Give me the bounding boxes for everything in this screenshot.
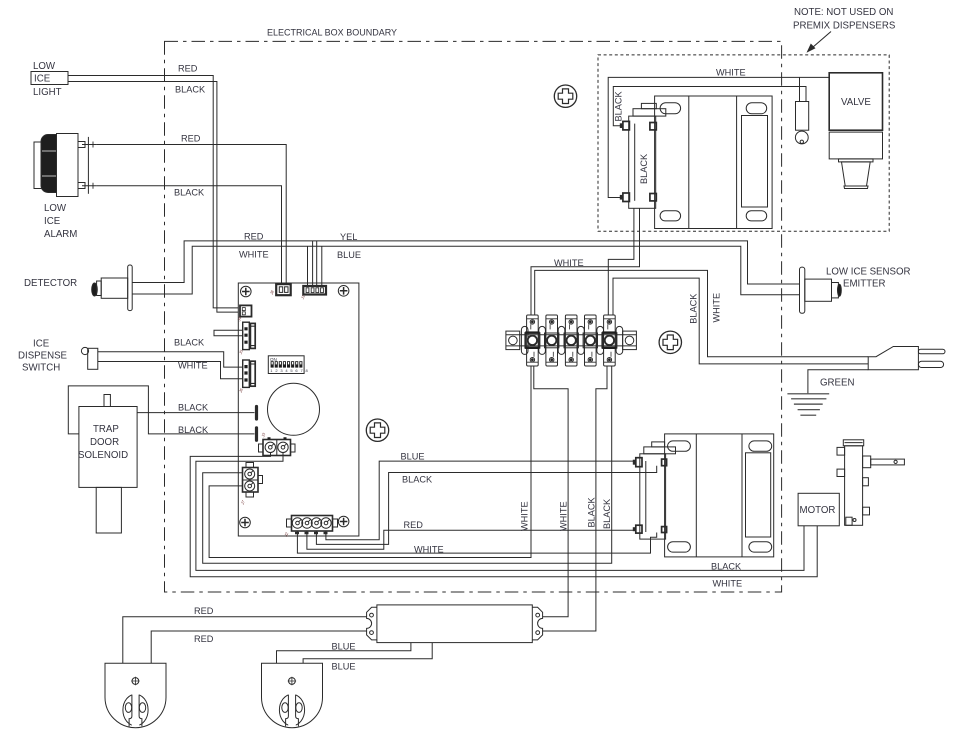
svg-text:BLACK: BLACK — [178, 425, 209, 435]
svg-text:ON: ON — [270, 357, 277, 362]
gearmotor M1 — [837, 440, 904, 526]
transformer XFMR2 coil — [634, 442, 676, 539]
note dashed box — [598, 55, 889, 231]
svg-text:WHITE: WHITE — [178, 361, 208, 371]
board pin 2 — [255, 428, 258, 441]
lamp holder 2 — [262, 663, 323, 727]
wire transformer T1B to terminal T1 — [531, 208, 640, 315]
svg-text:BLACK: BLACK — [174, 338, 205, 348]
svg-text:GREEN: GREEN — [820, 378, 854, 389]
svg-text:WHITE: WHITE — [712, 293, 722, 323]
wire RED lamp1b to ballast — [151, 631, 366, 663]
fluorescent ballast — [367, 605, 543, 643]
svg-text:DETECTOR: DETECTOR — [24, 278, 77, 289]
svg-text:DISPENSE: DISPENSE — [18, 351, 68, 362]
transformer XFMR1 coil — [621, 103, 666, 208]
control board PCB — [238, 283, 359, 536]
wire RED J2 to transformer2 — [307, 530, 636, 549]
svg-text:WHITE: WHITE — [558, 501, 568, 531]
svg-text:RED: RED — [404, 520, 424, 530]
svg-text:J7: J7 — [239, 499, 246, 506]
wire J7-1 to terminal T5 bottom — [203, 366, 612, 563]
electrical box boundary (dash-dot) — [165, 41, 782, 592]
wire BLACK solenoid to board pin — [137, 412, 254, 414]
wire GREEN plug to ground — [808, 370, 868, 394]
PCB screw bottom-right — [338, 516, 349, 527]
svg-text:WHITE: WHITE — [239, 250, 269, 260]
connector J7 — [239, 463, 262, 507]
svg-text:SOLENOID: SOLENOID — [78, 450, 128, 461]
svg-text:SWITCH: SWITCH — [22, 363, 60, 374]
power plug P1 — [868, 347, 945, 370]
ground symbol — [787, 394, 829, 415]
svg-text:BLACK: BLACK — [689, 293, 699, 324]
svg-text:BLUE: BLUE — [401, 452, 425, 462]
connector J5 — [237, 322, 255, 356]
wire BLUE ballast to lamp2 b — [303, 643, 432, 664]
wire BLUE ballast to lamp2 — [277, 643, 411, 664]
wire BLACK solenoid loop to board pin — [68, 386, 254, 434]
wire BLACK from low ice light to J4 — [68, 82, 238, 313]
wire WHITE/BLUE horizontal detector to emitter — [132, 246, 799, 295]
svg-text:WHITE: WHITE — [554, 258, 584, 268]
svg-text:WHITE: WHITE — [414, 545, 444, 555]
lamp holder 1 — [105, 663, 166, 727]
svg-text:BLUE: BLUE — [332, 642, 356, 652]
wire J3-1 to motor white bus — [190, 453, 817, 577]
svg-text:YEL: YEL — [340, 232, 357, 242]
wire BLACK transformer1 to lamp — [613, 87, 806, 126]
board pin 1 — [255, 407, 258, 420]
wire J7-2 to terminal T1 bottom — [209, 366, 531, 558]
svg-text:LIGHT: LIGHT — [33, 87, 62, 98]
terminal T2 — [545, 315, 559, 366]
PCB screw top-left — [241, 286, 252, 297]
DIP switch SW1 — [268, 356, 310, 374]
svg-text:BLACK: BLACK — [174, 188, 205, 198]
relay circle on PCB — [268, 383, 320, 435]
wire taps J1 pins — [308, 241, 322, 286]
wire BLUE J2 to transformer2 — [326, 461, 636, 540]
detector — [24, 265, 132, 311]
wire BLACK from alarm to J8 — [96, 186, 281, 284]
svg-text:TRAP: TRAP — [93, 424, 119, 435]
svg-text:LOW: LOW — [33, 61, 56, 72]
svg-text:ICE: ICE — [33, 339, 50, 350]
svg-text:ALARM: ALARM — [44, 229, 77, 240]
terminal T5 — [602, 315, 616, 366]
svg-text:BLUE: BLUE — [332, 662, 356, 672]
svg-text:VALVE: VALVE — [841, 97, 871, 108]
svg-text:DOOR: DOOR — [90, 437, 119, 448]
wire J3-2 to motor black bus — [196, 453, 804, 571]
wire RED from low ice light to J4 — [68, 76, 238, 308]
PCB screw bottom-left — [240, 517, 251, 528]
terminal block TB1 bracket — [506, 331, 637, 350]
svg-text:BLUE: BLUE — [337, 250, 361, 260]
svg-text:BLACK: BLACK — [711, 562, 742, 572]
wire terminal T5 bottom to ballast — [543, 366, 607, 631]
svg-text:RED: RED — [194, 634, 214, 644]
terminal spacers — [521, 326, 622, 354]
svg-text:MOTOR: MOTOR — [800, 505, 836, 516]
wire BLACK plug to T5 — [613, 278, 868, 364]
connector J1 — [299, 286, 326, 301]
wire RED lamp1 to ballast — [123, 617, 367, 664]
svg-text:BLACK: BLACK — [402, 475, 433, 485]
transformer XFMR2 body — [665, 434, 774, 557]
terminal T4 — [583, 315, 597, 366]
svg-text:RED: RED — [181, 134, 201, 144]
svg-text:J8: J8 — [268, 289, 275, 296]
connector J4 — [236, 305, 252, 322]
svg-text:EMITTER: EMITTER — [843, 279, 886, 290]
chassis screw symbol upper — [554, 85, 576, 107]
svg-text:RED: RED — [178, 64, 198, 74]
svg-text:ELECTRICAL BOX BOUNDARY: ELECTRICAL BOX BOUNDARY — [267, 28, 397, 38]
wire BLACK J2 to transformer2 — [316, 466, 656, 545]
connector J8 — [268, 284, 290, 296]
svg-text:BLACK: BLACK — [587, 496, 597, 527]
svg-text:12345678: 12345678 — [270, 368, 310, 373]
connector J6 — [237, 360, 255, 394]
wire transformer T1A to terminal T5 — [608, 208, 634, 315]
lamp lead from white line — [799, 77, 801, 101]
svg-text:RED: RED — [244, 232, 264, 242]
connector J3 — [259, 431, 296, 455]
svg-text:BLACK: BLACK — [639, 153, 649, 184]
svg-text:BLACK: BLACK — [602, 498, 612, 529]
motor box — [798, 493, 839, 526]
PCB screw top-right — [338, 286, 349, 297]
wire RED/YEL horizontal detector to emitter — [132, 241, 799, 284]
stub cable at J5 — [214, 330, 243, 335]
svg-text:BLACK: BLACK — [175, 85, 206, 95]
wire RED from alarm to J8 — [96, 145, 286, 285]
svg-text:WHITE: WHITE — [713, 579, 743, 589]
svg-text:ICE: ICE — [44, 216, 61, 227]
note arrow — [809, 32, 831, 51]
wire WHITE switch to J6 — [98, 362, 243, 379]
chassis screw symbol center — [366, 419, 388, 441]
low ice light L1 — [31, 61, 68, 98]
wire terminal T1 bottom to ballast — [534, 366, 568, 617]
svg-text:ICE: ICE — [34, 74, 51, 85]
transformer XFMR1 body — [655, 96, 773, 229]
connector J2 — [283, 516, 338, 539]
wire WHITE J2 to transformer2 — [297, 531, 656, 553]
svg-text:LOW ICE SENSOR: LOW ICE SENSOR — [826, 267, 911, 278]
svg-text:BLACK: BLACK — [178, 403, 209, 413]
wire BLACK switch to J6 — [98, 352, 243, 367]
svg-text:J3: J3 — [260, 431, 267, 438]
chassis screw symbol right — [659, 331, 681, 353]
svg-text:NOTE: NOT USED ON: NOTE: NOT USED ON — [794, 7, 893, 18]
svg-text:LOW: LOW — [44, 203, 67, 214]
low ice sensor emitter — [800, 267, 911, 314]
valve V1 — [829, 73, 882, 189]
trap door solenoid — [78, 395, 137, 534]
wire WHITE plug to T1 — [535, 270, 869, 356]
svg-text:RED: RED — [194, 606, 214, 616]
terminal T3 — [564, 315, 578, 366]
low ice alarm buzzer — [34, 134, 96, 241]
indicator lamp DS1 — [795, 102, 808, 144]
svg-text:BLACK: BLACK — [614, 90, 624, 121]
wire WHITE transformer1 to valve — [608, 77, 829, 197]
terminal T1 — [525, 315, 539, 366]
ice dispense switch — [18, 339, 98, 374]
svg-text:J2: J2 — [283, 531, 290, 538]
svg-text:WHITE: WHITE — [520, 501, 530, 531]
svg-text:PREMIX DISPENSERS: PREMIX DISPENSERS — [793, 21, 896, 32]
svg-text:WHITE: WHITE — [716, 68, 746, 78]
